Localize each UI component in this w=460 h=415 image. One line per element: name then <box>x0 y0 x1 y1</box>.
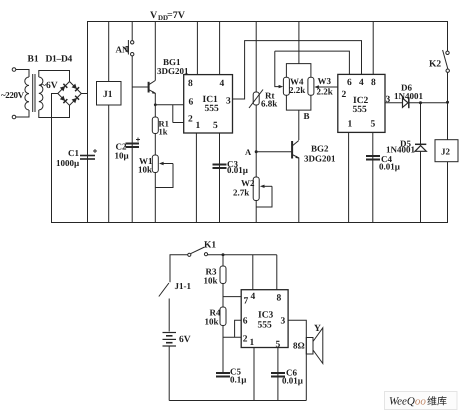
wire bridge plus to left vertical <box>81 93 87 95</box>
pushbutton AN <box>126 22 134 223</box>
svg-text:1: 1 <box>196 121 201 131</box>
wire bottom-circuit top rail <box>170 255 188 282</box>
label IC2 pins <box>342 78 391 130</box>
svg-text:0.01µ: 0.01µ <box>227 165 249 175</box>
svg-text:2.2k: 2.2k <box>289 85 305 95</box>
svg-text:8: 8 <box>371 78 376 88</box>
svg-text:0.01µ: 0.01µ <box>379 162 401 172</box>
svg-text:2: 2 <box>188 115 193 125</box>
wire R4 node to pin2 <box>223 336 241 338</box>
thermistor Rt <box>249 22 263 178</box>
wire IC1 pin4 <box>219 22 221 75</box>
svg-text:J1: J1 <box>103 90 113 100</box>
svg-text:1k: 1k <box>159 127 168 137</box>
svg-text:V: V <box>150 10 158 21</box>
op IC3 555 box <box>241 290 288 348</box>
svg-text:0.1µ: 0.1µ <box>230 375 247 385</box>
wire IC3 pin3 to speaker <box>288 320 306 400</box>
resistor R4 <box>220 307 226 372</box>
svg-text:4: 4 <box>251 292 256 302</box>
potentiometer W2 <box>253 177 272 223</box>
transistor BG2 <box>292 141 299 223</box>
svg-text:C1: C1 <box>68 148 79 158</box>
switch K2 <box>443 50 450 140</box>
svg-text:0.01µ: 0.01µ <box>282 375 304 385</box>
relay J2 <box>435 140 458 162</box>
wire W4 wiper to IC2 pin6 <box>275 51 350 74</box>
wire top rail VDD <box>88 22 448 223</box>
wire IC2 pin3 <box>385 102 403 104</box>
svg-text:=7V: =7V <box>167 10 186 21</box>
svg-text:555: 555 <box>353 105 368 115</box>
svg-text:3: 3 <box>281 317 286 327</box>
svg-text:K1: K1 <box>204 241 216 251</box>
label IC3 pins <box>243 292 286 350</box>
potentiometer W1 <box>152 155 173 223</box>
svg-text:J2: J2 <box>441 147 451 157</box>
svg-text:1: 1 <box>250 338 255 348</box>
svg-text:1N4001: 1N4001 <box>386 145 415 155</box>
wire IC2 pin5 / C4 branch <box>372 132 374 222</box>
svg-text:AN: AN <box>116 45 129 55</box>
diode D6 <box>403 98 448 109</box>
svg-text:2.7k: 2.7k <box>233 188 249 198</box>
capacitor C6 <box>271 372 285 378</box>
capacitor C5 <box>216 372 230 378</box>
svg-text:3DG201: 3DG201 <box>304 154 336 164</box>
svg-text:2: 2 <box>243 335 248 345</box>
svg-text:3: 3 <box>226 97 231 107</box>
wire bridge minus to bottom rail <box>52 94 58 118</box>
svg-text:1: 1 <box>348 120 353 130</box>
svg-text:K2: K2 <box>429 60 441 70</box>
capacitor C2 <box>126 138 141 149</box>
svg-text:2: 2 <box>342 90 347 100</box>
wire node A to BG2 base <box>256 151 292 153</box>
svg-text:10k: 10k <box>204 276 218 286</box>
wire IC1 pin3 to IC2 pin4 <box>233 41 362 99</box>
svg-text:4: 4 <box>220 79 225 89</box>
resistor R1 <box>152 117 158 155</box>
diode D3 bottom-left (points to bottom corner) <box>60 95 68 103</box>
relay contact J1-1 <box>159 283 169 332</box>
capacitor C3 <box>213 164 227 170</box>
wire IC1 pin6 pin2 loop <box>154 103 184 122</box>
label IC1 pins <box>188 79 231 131</box>
svg-text:Y: Y <box>314 324 321 334</box>
diode D4 bottom-right (points to right corner) <box>71 96 79 104</box>
wire IC3 pin4 <box>252 255 254 290</box>
svg-text:A: A <box>245 147 252 157</box>
svg-text:555: 555 <box>258 321 273 331</box>
wire IC3 pin1 <box>253 348 255 401</box>
wire bottom-circuit bottom rail <box>169 400 306 402</box>
wire secondary top to bridge <box>39 71 70 82</box>
svg-text:WeeQoo: WeeQoo <box>389 396 426 408</box>
svg-text:10µ: 10µ <box>115 151 130 161</box>
svg-text:5: 5 <box>371 120 376 130</box>
svg-text:B1: B1 <box>28 55 39 65</box>
op IC1 555 box <box>184 75 233 133</box>
node VDD label <box>150 10 186 22</box>
potentiometer W4 <box>275 22 311 141</box>
wire IC2 pin8 <box>372 22 374 75</box>
svg-text:B: B <box>304 111 310 121</box>
wire IC3 pin6 loop <box>235 320 242 337</box>
switch K1 <box>188 247 277 256</box>
svg-text:6: 6 <box>243 317 248 327</box>
diode D5 <box>415 101 426 222</box>
svg-text:2.2k: 2.2k <box>317 87 333 97</box>
svg-text:1000µ: 1000µ <box>56 158 80 168</box>
op IC2 555 box <box>338 74 385 132</box>
wire IC1 pin1 <box>195 133 197 223</box>
svg-text:4: 4 <box>359 78 364 88</box>
svg-text:~220V: ~220V <box>1 90 25 100</box>
svg-text:维库: 维库 <box>427 396 447 408</box>
svg-text:IC3: IC3 <box>258 311 274 321</box>
svg-text:1N4001: 1N4001 <box>394 91 423 101</box>
wire secondary bottom to bridge <box>39 106 70 118</box>
diode D2 top-right (points to right corner) <box>71 84 79 92</box>
svg-text:6.8k: 6.8k <box>261 99 277 109</box>
wire R3/R4 node to pin7 <box>223 296 241 298</box>
capacitor C1 <box>80 149 97 159</box>
svg-text:D1–D4: D1–D4 <box>46 55 73 65</box>
wire IC3 pin5 / C6 branch <box>277 348 279 401</box>
svg-text:555: 555 <box>205 104 220 114</box>
transistor BG1 <box>132 22 155 118</box>
watermark WeeQoo <box>385 392 458 410</box>
svg-text:8: 8 <box>188 79 193 89</box>
wire IC3 pin8 <box>276 255 278 290</box>
svg-text:10k: 10k <box>205 317 219 327</box>
potentiometer W3 <box>308 77 338 95</box>
svg-text:BG2: BG2 <box>311 144 329 154</box>
svg-text:8: 8 <box>277 294 282 304</box>
speaker Y <box>306 328 323 364</box>
svg-text:8Ω: 8Ω <box>293 341 305 351</box>
diode D1 top-left (points to top corner) <box>60 84 68 92</box>
svg-text:W3: W3 <box>318 76 332 86</box>
wire IC2 pin1 <box>348 132 350 222</box>
svg-text:6: 6 <box>189 98 194 108</box>
svg-text:~6V: ~6V <box>41 81 58 91</box>
svg-text:3: 3 <box>386 95 391 105</box>
capacitor C4 <box>366 155 380 161</box>
svg-text:6V: 6V <box>179 335 191 345</box>
wire bottom rail <box>52 118 448 223</box>
resistor R3 <box>220 253 226 307</box>
svg-text:5: 5 <box>213 121 218 131</box>
svg-text:J1-1: J1-1 <box>175 281 192 291</box>
wire IC1 pin8 <box>196 22 198 75</box>
relay coil J1 <box>97 22 122 223</box>
bridge rectifier D1-D4 <box>58 82 82 106</box>
node A <box>245 147 258 157</box>
wire IC1 pin5 / C3 branch <box>219 133 221 223</box>
svg-text:W2: W2 <box>241 178 255 188</box>
transformer B1 <box>12 68 43 119</box>
battery 6V <box>163 333 177 401</box>
svg-text:6: 6 <box>347 78 352 88</box>
svg-text:10k: 10k <box>138 165 152 175</box>
svg-text:7: 7 <box>244 297 249 307</box>
